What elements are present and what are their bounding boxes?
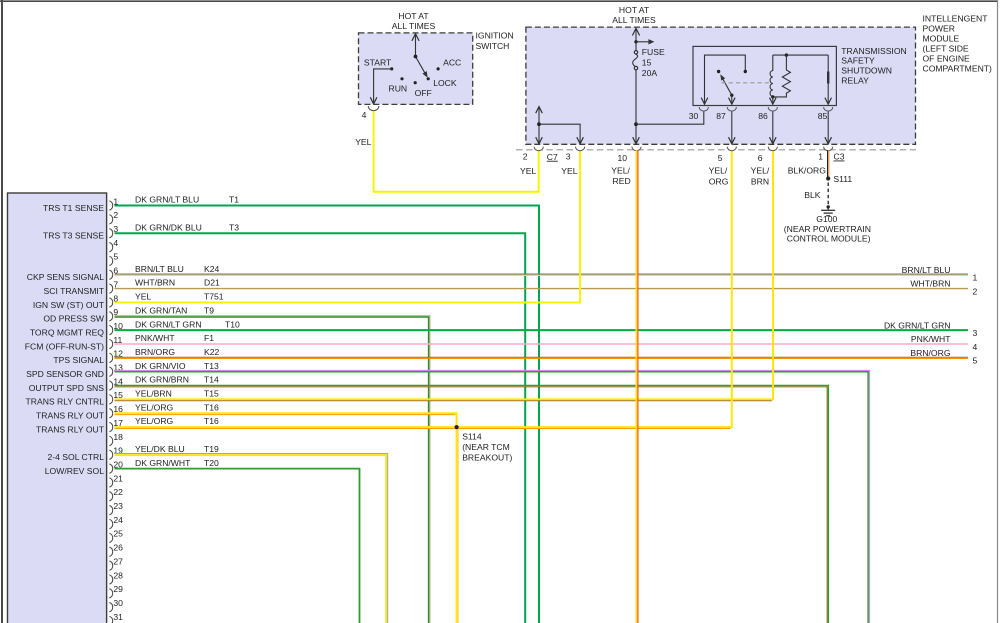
relay pin 85 wire to IPM edge [827, 112, 829, 144]
IPM connector pin 3 cup [576, 147, 585, 151]
svg-text:FUSE: FUSE [642, 47, 665, 57]
TCM pin 8 [109, 298, 112, 307]
svg-text:T9: T9 [204, 305, 214, 315]
intelligent power module box [526, 27, 916, 144]
TCM pin 28 [109, 575, 112, 584]
svg-text:LOCK: LOCK [433, 78, 457, 88]
svg-text:24: 24 [113, 515, 123, 525]
ignition switch lever [416, 57, 425, 73]
svg-text:CKP SENS SIGNAL: CKP SENS SIGNAL [27, 272, 104, 282]
TCM pin 1 [109, 201, 112, 210]
svg-text:86: 86 [758, 111, 768, 121]
svg-text:87: 87 [716, 111, 726, 121]
relay pin 87 wire to IPM edge [731, 112, 733, 144]
svg-text:2: 2 [113, 210, 118, 220]
ignition switch feed arrow [415, 35, 417, 57]
wire T3 DK GRN/DK BLU pin3 to bottom [115, 233, 526, 623]
wire S114 drop to bottom [456, 427, 458, 623]
IPM internal wire to pin 3 [539, 124, 580, 143]
relay coil zigzag [775, 55, 791, 97]
svg-text:T20: T20 [204, 458, 219, 468]
TCM pin 25 [109, 533, 112, 542]
IPM connector pin 6 cup [768, 147, 777, 151]
svg-text:BREAKOUT): BREAKOUT) [462, 452, 512, 462]
svg-text:29: 29 [113, 584, 123, 594]
svg-text:SPD SENSOR GND: SPD SENSOR GND [26, 369, 104, 379]
svg-text:ALL TIMES: ALL TIMES [612, 15, 656, 25]
svg-text:OUTPUT SPD SNS: OUTPUT SPD SNS [29, 383, 105, 393]
relay pin 86 wire to IPM edge [772, 112, 774, 144]
IPM feed arrow up [635, 29, 637, 51]
svg-text:OF ENGINE: OF ENGINE [923, 53, 971, 63]
relay pin 30 cup [699, 107, 708, 111]
svg-text:ALL TIMES: ALL TIMES [392, 21, 436, 31]
svg-text:INTELLENGENT: INTELLENGENT [923, 13, 989, 23]
TCM pin 13 [109, 367, 112, 376]
TCM pin 14 [109, 381, 112, 390]
TCM pin 2 [109, 215, 112, 224]
ignition pin 4 [368, 106, 379, 111]
svg-text:6: 6 [758, 153, 763, 163]
svg-text:RELAY: RELAY [841, 75, 869, 85]
wire T20 DK GRN/WHT pin20 to bottom [115, 469, 360, 623]
svg-text:YEL/ORG: YEL/ORG [135, 416, 174, 426]
fuse output wire down to pin 10 [635, 70, 637, 144]
svg-text:YEL/BRN: YEL/BRN [135, 389, 172, 399]
svg-text:2: 2 [973, 286, 978, 296]
page frame left border [1, 0, 3, 623]
wire K24 BRN/LT BLU pin6 to right edge [115, 273, 969, 275]
relay pin 30 internal line [705, 55, 746, 104]
svg-text:3: 3 [973, 328, 978, 338]
svg-text:DK GRN/DK BLU: DK GRN/DK BLU [135, 222, 202, 232]
svg-text:27: 27 [113, 556, 123, 566]
svg-text:RED: RED [613, 176, 631, 186]
wire D21 WHT/BRN pin7 to right edge [115, 288, 969, 290]
wire T19 YEL/DK BLU pin19 to bottom [115, 455, 387, 623]
wire T10 DK GRN/LT GRN pin10 to right edge [115, 329, 969, 331]
svg-text:T16: T16 [204, 402, 219, 412]
relay pin 85 cup [824, 107, 833, 111]
TCM pin 26 [109, 547, 112, 557]
svg-text:30: 30 [689, 111, 699, 121]
svg-text:OFF: OFF [415, 88, 432, 98]
svg-text:1: 1 [818, 152, 823, 162]
svg-text:S111: S111 [833, 174, 852, 184]
svg-text:BRN: BRN [751, 177, 769, 187]
svg-text:4: 4 [973, 342, 978, 352]
TCM pin 18 [109, 436, 112, 445]
TCM pin 11 [109, 339, 112, 348]
relay switch arm [723, 78, 732, 95]
wire T14 DK GRN/BRN pin14 to bottom [115, 386, 829, 623]
TCM pin 9 [109, 312, 112, 321]
svg-text:15: 15 [642, 57, 652, 67]
svg-text:YEL: YEL [561, 166, 577, 176]
svg-text:RUN: RUN [388, 84, 407, 94]
wire YEL ignition pin4 to IPM pin2 [374, 111, 539, 192]
svg-text:85: 85 [818, 111, 828, 121]
wire T751 YEL pin8 to IPM pin3 [115, 150, 581, 302]
wire T13 DK GRN/VIO pin13 to bottom [115, 371, 870, 623]
svg-text:DK GRN/LT GRN: DK GRN/LT GRN [135, 319, 202, 329]
svg-text:DK GRN/VIO: DK GRN/VIO [135, 361, 186, 371]
svg-text:TRANS RLY CNTRL: TRANS RLY CNTRL [26, 397, 105, 407]
page frame top border [0, 0, 998, 2]
IPM connector dashed line C7/C3 [516, 149, 916, 151]
svg-text:G100: G100 [816, 214, 837, 224]
svg-text:K24: K24 [204, 264, 220, 274]
TCM connector box [8, 193, 107, 623]
svg-text:SAFETY: SAFETY [841, 56, 875, 66]
ignition position START [390, 67, 393, 70]
svg-text:BRN/ORG: BRN/ORG [135, 347, 175, 357]
svg-text:2: 2 [523, 152, 528, 162]
wire junction to relay pin30 [636, 112, 704, 125]
svg-text:5: 5 [718, 153, 723, 163]
svg-text:YEL/: YEL/ [751, 166, 770, 176]
transmission safety shutdown relay box [693, 46, 836, 105]
svg-text:18: 18 [113, 432, 123, 442]
svg-text:T16: T16 [204, 416, 219, 426]
TCM pin 19 [109, 450, 112, 459]
svg-text:PNK/WHT: PNK/WHT [911, 334, 951, 344]
wire T16 YEL/ORG pin16 to splice S114 [115, 413, 457, 427]
ignition position RUN [400, 77, 403, 80]
svg-text:DK GRN/TAN: DK GRN/TAN [135, 305, 187, 315]
ignition position OFF [414, 81, 417, 84]
junction node at fuse output [634, 122, 638, 126]
fuse 15 20A [634, 51, 637, 54]
TCM pin 12 [109, 353, 112, 362]
svg-text:BLK/ORG: BLK/ORG [788, 165, 827, 175]
svg-text:30: 30 [113, 598, 123, 608]
svg-text:COMPARTMENT): COMPARTMENT) [923, 63, 993, 73]
TCM pin 24 [109, 519, 112, 529]
svg-text:21: 21 [113, 473, 123, 483]
relay coil bottom node [771, 95, 774, 98]
svg-text:ORG: ORG [709, 177, 729, 187]
IPM connector pin 5 cup [727, 147, 736, 151]
svg-text:YEL/DK BLU: YEL/DK BLU [135, 444, 185, 454]
svg-text:26: 26 [113, 543, 123, 553]
svg-text:T19: T19 [204, 444, 219, 454]
TCM pin 15 [109, 395, 112, 404]
svg-text:LOW/REV SOL: LOW/REV SOL [45, 466, 104, 476]
svg-text:TPS SIGNAL: TPS SIGNAL [53, 355, 104, 365]
IPM connector pin 1 cup [824, 147, 833, 151]
wire F1 PNK/WHT pin11 to right edge [115, 343, 969, 345]
svg-text:(LEFT SIDE: (LEFT SIDE [923, 43, 969, 53]
svg-text:T13: T13 [204, 361, 219, 371]
relay pin 86 cup [768, 107, 777, 111]
svg-text:BRN/LT BLU: BRN/LT BLU [902, 265, 951, 275]
wire YEL/RED IPM pin10 to bottom [635, 150, 637, 623]
svg-text:C7: C7 [547, 152, 558, 162]
svg-text:T3: T3 [229, 222, 239, 232]
svg-text:DK GRN/WHT: DK GRN/WHT [135, 458, 191, 468]
relay fixed contact [744, 70, 747, 73]
ground G100 [827, 205, 830, 208]
wire BLK/ORG IPM pin1 to S111 [827, 150, 829, 177]
relay coil loops [770, 55, 773, 96]
svg-text:T14: T14 [204, 375, 219, 385]
page frame right border [997, 0, 999, 623]
TCM pin 6 [109, 270, 112, 279]
svg-text:4: 4 [113, 238, 118, 248]
wire T16 YEL/ORG pin17 through S114 to IPM pin5 [115, 150, 732, 427]
svg-text:5: 5 [973, 356, 978, 366]
svg-text:28: 28 [113, 570, 123, 580]
svg-text:(NEAR TCM: (NEAR TCM [462, 442, 510, 452]
splice S111 [826, 176, 830, 180]
svg-text:31: 31 [113, 612, 123, 622]
svg-text:DK GRN/LT BLU: DK GRN/LT BLU [135, 195, 199, 205]
ignition position LOCK [427, 77, 430, 80]
relay open contact [717, 70, 720, 73]
ignition START output wire to pin 4 [374, 69, 392, 104]
svg-text:SHUTDOWN: SHUTDOWN [841, 66, 892, 76]
ignition position ACC [437, 67, 440, 70]
svg-text:IGN SW (ST) OUT: IGN SW (ST) OUT [33, 300, 105, 310]
svg-text:YEL: YEL [135, 292, 151, 302]
TCM pin 27 [109, 561, 112, 570]
svg-text:DK GRN/BRN: DK GRN/BRN [135, 375, 189, 385]
svg-text:C3: C3 [834, 152, 845, 162]
svg-text:(NEAR POWERTRAIN: (NEAR POWERTRAIN [784, 224, 871, 234]
svg-text:4: 4 [362, 110, 367, 120]
TCM pin 31 [109, 616, 112, 623]
svg-text:START: START [364, 58, 392, 68]
svg-text:DK GRN/LT GRN: DK GRN/LT GRN [884, 320, 951, 330]
svg-text:20A: 20A [642, 68, 658, 78]
svg-text:TRANSMISSION: TRANSMISSION [841, 46, 906, 56]
TCM pin 16 [109, 409, 112, 418]
svg-text:OD PRESS SW: OD PRESS SW [43, 314, 105, 324]
svg-text:22: 22 [113, 487, 123, 497]
svg-text:3: 3 [566, 152, 571, 162]
TCM pin 3 [109, 229, 112, 238]
svg-text:YEL/: YEL/ [611, 165, 630, 175]
ignition switch box [359, 33, 473, 105]
IPM pin 2 internal arrows [538, 107, 540, 143]
svg-text:D21: D21 [204, 278, 220, 288]
TCM pin 21 [109, 478, 112, 487]
svg-text:PNK/WHT: PNK/WHT [135, 333, 175, 343]
IPM branch arrow right [634, 40, 637, 43]
svg-text:CONTROL MODULE): CONTROL MODULE) [787, 234, 871, 244]
svg-text:YEL: YEL [355, 137, 371, 147]
wire T15 YEL/BRN pin15 to IPM pin6 [115, 150, 774, 399]
svg-text:ACC: ACC [443, 58, 461, 68]
relay pin 87 cup [727, 107, 736, 111]
TCM pin 4 [109, 242, 112, 251]
svg-text:T15: T15 [204, 389, 219, 399]
relay pin 85 internal line [827, 55, 829, 104]
TCM pin 10 [109, 325, 112, 334]
svg-text:YEL: YEL [520, 166, 536, 176]
TCM pin 30 [109, 602, 112, 612]
TCM pin 20 [109, 464, 112, 473]
svg-text:F1: F1 [204, 333, 214, 343]
TCM pin 23 [109, 506, 112, 515]
svg-text:K22: K22 [204, 347, 220, 357]
wire BLK S111 to G100 [827, 183, 829, 206]
svg-text:T1: T1 [229, 195, 239, 205]
TCM pin 7 [109, 284, 112, 293]
svg-text:TORQ MGMT REQ: TORQ MGMT REQ [30, 327, 104, 337]
wire T9 DK GRN/TAN pin9 to bottom [115, 316, 430, 623]
svg-text:SWITCH: SWITCH [476, 41, 510, 51]
TCM pin 17 [109, 422, 112, 431]
svg-text:TRS T3 SENSE: TRS T3 SENSE [43, 231, 104, 241]
IPM connector pin 10 cup [632, 147, 641, 151]
svg-text:IGNITION: IGNITION [476, 31, 514, 41]
wire K22 BRN/ORG pin12 to right edge [115, 356, 969, 358]
IPM connector pin 2 cup [534, 147, 543, 151]
wire T1 DK GRN/LT BLU pin1 to bottom [115, 206, 540, 623]
svg-text:MODULE: MODULE [923, 33, 960, 43]
TCM pin 5 [109, 256, 112, 265]
TCM pin 29 [109, 589, 112, 598]
relay coil top wire [773, 54, 828, 56]
svg-text:HOT AT: HOT AT [619, 5, 650, 15]
svg-text:YEL/ORG: YEL/ORG [135, 402, 174, 412]
svg-text:BRN/LT BLU: BRN/LT BLU [135, 264, 184, 274]
svg-text:WHT/BRN: WHT/BRN [135, 278, 175, 288]
svg-text:1: 1 [973, 273, 978, 283]
svg-text:POWER: POWER [923, 23, 955, 33]
svg-text:TRANS RLY OUT: TRANS RLY OUT [36, 411, 105, 421]
svg-text:TRANS RLY OUT: TRANS RLY OUT [36, 424, 105, 434]
svg-text:T10: T10 [225, 319, 240, 329]
svg-text:25: 25 [113, 529, 123, 539]
svg-text:YEL/: YEL/ [709, 166, 728, 176]
svg-text:BLK: BLK [804, 190, 821, 200]
svg-text:T751: T751 [204, 292, 224, 302]
svg-text:SCI TRANSMIT: SCI TRANSMIT [44, 286, 105, 296]
svg-text:10: 10 [617, 153, 627, 163]
svg-text:BRN/ORG: BRN/ORG [910, 348, 950, 358]
relay actuation dashed link [722, 82, 770, 84]
svg-text:2-4 SOL CTRL: 2-4 SOL CTRL [47, 452, 104, 462]
TCM pin 22 [109, 492, 112, 501]
svg-text:5: 5 [113, 252, 118, 262]
svg-text:23: 23 [113, 501, 123, 511]
svg-text:WHT/BRN: WHT/BRN [910, 279, 950, 289]
svg-text:TRS T1 SENSE: TRS T1 SENSE [43, 203, 104, 213]
svg-text:HOT AT: HOT AT [398, 11, 429, 21]
svg-text:FCM (OFF-RUN-ST): FCM (OFF-RUN-ST) [25, 341, 104, 351]
splice S114 [455, 425, 459, 429]
svg-text:S114: S114 [462, 431, 482, 441]
